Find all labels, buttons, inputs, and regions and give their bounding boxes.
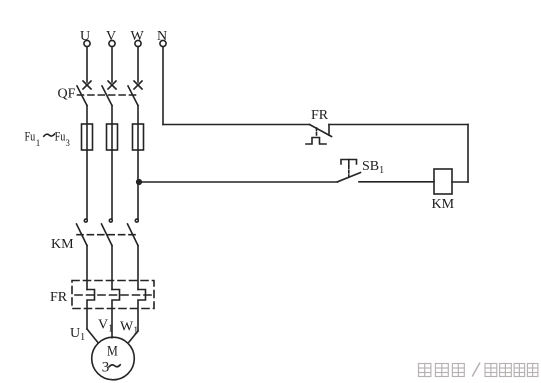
fuse label Fu1~Fu3 bbox=[25, 128, 71, 148]
svg-text:Fu: Fu bbox=[25, 128, 36, 143]
wire FR to corner bbox=[329, 124, 468, 126]
terminal U bbox=[80, 29, 90, 47]
svg-text:FR: FR bbox=[311, 108, 329, 123]
motor lead W1 bbox=[129, 331, 138, 342]
thermal relay FR heater 1 bbox=[87, 290, 95, 330]
svg-text:SB1: SB1 bbox=[362, 159, 384, 176]
thermal relay FR box dashed bbox=[72, 281, 154, 309]
terminal V bbox=[106, 29, 116, 47]
wire U phase lower bbox=[86, 246, 88, 290]
wire right vertical bbox=[467, 125, 469, 183]
thermal contact FR NC bbox=[306, 125, 332, 145]
svg-text:3: 3 bbox=[102, 360, 110, 376]
terminal N bbox=[157, 29, 167, 47]
pushbutton SB1 NO bbox=[338, 160, 361, 182]
svg-text:W1: W1 bbox=[120, 320, 138, 337]
svg-text:KM: KM bbox=[432, 197, 455, 212]
wire node to SB1 bbox=[139, 181, 338, 183]
fuse FU3 bbox=[133, 124, 144, 150]
fuse FU1 bbox=[82, 124, 93, 150]
contactor KM pole 3 bbox=[128, 219, 139, 245]
svg-text:QF: QF bbox=[58, 86, 76, 101]
thermal relay FR heater 2 bbox=[112, 290, 120, 338]
wire V phase top bbox=[111, 47, 113, 82]
thermal relay FR linkage dashed bbox=[75, 294, 151, 296]
wire U phase top bbox=[86, 47, 88, 82]
wire W phase top bbox=[137, 47, 139, 82]
svg-text:KM: KM bbox=[51, 237, 74, 252]
svg-text:1: 1 bbox=[36, 138, 41, 148]
breaker QF pole 1 bbox=[77, 81, 91, 106]
breaker QF pole 3 bbox=[128, 81, 142, 106]
wire N horizontal to FR contact bbox=[163, 124, 310, 126]
wire W phase mid bbox=[137, 106, 139, 219]
wire V phase lower bbox=[111, 246, 113, 290]
motor lead U1 bbox=[87, 329, 98, 342]
wire W phase lower bbox=[137, 246, 139, 290]
watermark 头条号/居跃在渊 bbox=[419, 363, 538, 377]
breaker QF pole 2 bbox=[102, 81, 116, 106]
wire N line vertical bbox=[162, 47, 164, 125]
contactor KM pole 1 bbox=[77, 219, 88, 245]
terminal W bbox=[131, 29, 145, 47]
node junction on W line bbox=[136, 179, 142, 185]
svg-text:Fu: Fu bbox=[55, 128, 66, 143]
coil KM rect bbox=[434, 169, 452, 194]
wire SB1 to KM coil bbox=[359, 181, 434, 183]
wire U phase mid bbox=[86, 106, 88, 219]
wire V phase mid bbox=[111, 106, 113, 219]
breaker QF linkage dashed bbox=[78, 94, 137, 96]
motor M1 circle bbox=[92, 337, 135, 380]
svg-text:FR: FR bbox=[50, 290, 68, 305]
svg-text:V1: V1 bbox=[98, 318, 113, 335]
svg-text:W: W bbox=[131, 29, 145, 44]
contactor KM pole 2 bbox=[102, 219, 113, 245]
svg-text:3: 3 bbox=[65, 138, 70, 148]
contactor KM linkage dashed bbox=[77, 234, 137, 236]
svg-text:U1: U1 bbox=[70, 326, 85, 343]
svg-text:M: M bbox=[107, 344, 118, 360]
thermal relay FR heater 3 bbox=[138, 290, 146, 332]
fuse FU2 bbox=[107, 124, 118, 150]
wire corner to KM coil bbox=[452, 181, 468, 183]
